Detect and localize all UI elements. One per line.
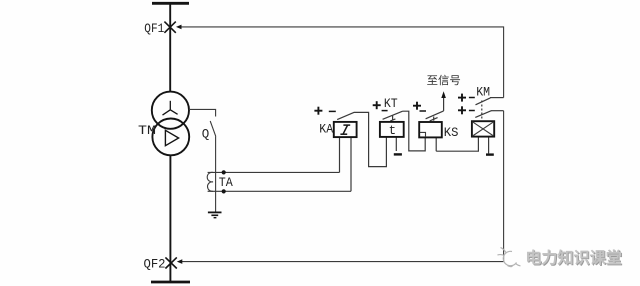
svg-text:TM: TM [138,123,156,138]
svg-text:KM: KM [476,85,490,99]
svg-text:KS: KS [444,126,459,140]
svg-text:TA: TA [219,175,233,190]
svg-text:QF2: QF2 [144,257,166,272]
svg-text:t: t [389,124,397,138]
svg-text:KA: KA [319,122,333,136]
svg-text:Q: Q [202,127,210,142]
svg-text:QF1: QF1 [144,21,164,36]
svg-text:KT: KT [384,97,398,111]
